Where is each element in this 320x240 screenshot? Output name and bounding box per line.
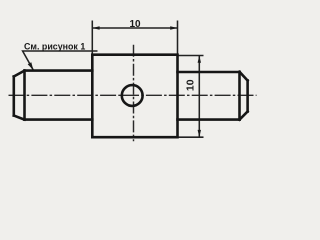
svg-text:10: 10	[184, 79, 196, 91]
svg-text:10: 10	[129, 19, 141, 30]
svg-text:См. рисунок 1: См. рисунок 1	[24, 41, 85, 51]
